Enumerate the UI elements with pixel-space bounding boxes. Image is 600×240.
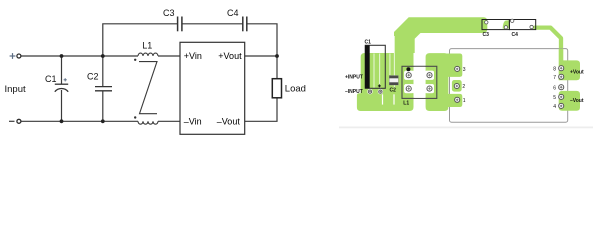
inductor L1 top winding: [138, 53, 158, 56]
svg-text:+INPUT: +INPUT: [345, 75, 363, 81]
svg-text:–Vout: –Vout: [570, 98, 584, 104]
+Vout bar and tongue: [559, 49, 580, 81]
svg-text:C3: C3: [483, 32, 490, 38]
wire top rail input to L1: [21, 55, 138, 57]
wire C4 to output node: [247, 24, 277, 56]
svg-text:4: 4: [553, 104, 556, 110]
C1 polarity mark: [64, 78, 67, 81]
minus sign: [9, 120, 15, 122]
L1 pin1 dot: [406, 67, 410, 71]
C1 plus mark: [378, 84, 381, 87]
white net separation gaps in input block: [374, 36, 394, 88]
svg-text:–Vin: –Vin: [184, 117, 202, 127]
copper C3-C4 link: [503, 20, 509, 29]
pin3 trace pad: [447, 54, 463, 77]
svg-text:+Vout: +Vout: [570, 70, 584, 76]
L1 top phase dot: [134, 59, 136, 61]
svg-text:2: 2: [462, 84, 465, 90]
wire bottom rail input to L1: [21, 120, 138, 122]
L1 pad TL: [404, 71, 413, 80]
pin1 trace pad: [447, 94, 463, 107]
svg-text:C3: C3: [163, 8, 175, 18]
svg-text:–INPUT: –INPUT: [345, 89, 363, 95]
capacitor C2: [95, 87, 112, 91]
capacitor C3: [178, 17, 182, 32]
junction node C2 bottom: [101, 119, 105, 123]
capacitor C4 footprint: [509, 20, 535, 30]
capacitor C3 footprint: [482, 20, 509, 30]
wire C2 bottom lead: [102, 91, 104, 122]
L1 pad BL: [404, 84, 413, 93]
svg-text:Load: Load: [285, 84, 306, 95]
resistor Load: [272, 79, 281, 98]
L1 pad TR: [425, 71, 434, 80]
wire load bottom to -Vout rail: [245, 98, 277, 122]
wire node to load top: [276, 56, 278, 79]
input terminal +: [17, 54, 21, 58]
module pin 3: [455, 66, 460, 71]
copper input block + riser + top bar: [357, 17, 487, 111]
inductor L1 bottom winding: [138, 121, 158, 124]
svg-text:3: 3: [463, 67, 466, 73]
svg-text:C2: C2: [87, 71, 99, 81]
wire C1 top lead: [61, 56, 63, 84]
pin2 pad: [452, 80, 462, 92]
wire C3 to C4: [182, 23, 243, 25]
input pad 2: [378, 89, 383, 94]
wire C1 bottom lead: [61, 90, 63, 121]
svg-text:–Vout: –Vout: [217, 117, 241, 127]
svg-text:8: 8: [553, 66, 556, 72]
input terminal -: [17, 119, 21, 123]
copper trace C4 to pin8: [535, 28, 561, 55]
copper pads over module left: [447, 49, 581, 111]
C1 negative bar: [365, 45, 370, 88]
module pin 1: [455, 97, 460, 102]
svg-text:Input: Input: [5, 84, 26, 95]
converter module pcb body: [450, 49, 568, 123]
wire L1 to box: [158, 55, 180, 57]
wire C2 top lead: [102, 56, 104, 86]
copper right column under L1/module: [426, 53, 449, 111]
svg-text:5: 5: [553, 95, 556, 101]
wire +Vout rail: [245, 55, 277, 57]
svg-text:L1: L1: [142, 41, 152, 51]
svg-text:C1: C1: [365, 40, 372, 46]
capacitor C4: [243, 17, 247, 32]
svg-text:C2: C2: [390, 87, 397, 93]
L1 bottom phase dot: [134, 116, 136, 118]
svg-text:+Vout: +Vout: [218, 51, 242, 61]
wire L1 to box bottom: [158, 120, 180, 122]
inductor L1 footprint: [402, 66, 437, 106]
L1 pad BR: [425, 84, 434, 93]
-Vout tongue: [559, 91, 580, 111]
L1 core Z: [139, 62, 157, 114]
svg-text:7: 7: [553, 75, 556, 81]
L1 inner white channel: [414, 67, 425, 98]
svg-text:1: 1: [463, 98, 466, 104]
svg-text:C4: C4: [227, 8, 239, 18]
plus sign: [10, 53, 16, 59]
junction node C1 bottom: [60, 119, 64, 123]
svg-text:C4: C4: [512, 32, 519, 38]
pcb shadow line: [339, 127, 593, 129]
capacitor C1 (polarized): [55, 84, 68, 92]
svg-text:+Vin: +Vin: [184, 51, 202, 61]
junction node output: [275, 54, 279, 58]
module pin 2: [454, 83, 459, 88]
wire riser to C3 rail: [103, 24, 178, 56]
svg-text:6: 6: [553, 85, 556, 91]
junction node C1 top: [60, 54, 64, 58]
capacitor C2 footprint: [389, 76, 398, 85]
junction node C2 top: [101, 54, 105, 58]
capacitor C1 footprint: [365, 45, 385, 88]
svg-text:C1: C1: [45, 74, 57, 84]
input pad 1: [367, 89, 372, 94]
svg-text:L1: L1: [403, 101, 409, 107]
converter module box U1: [180, 42, 245, 134]
